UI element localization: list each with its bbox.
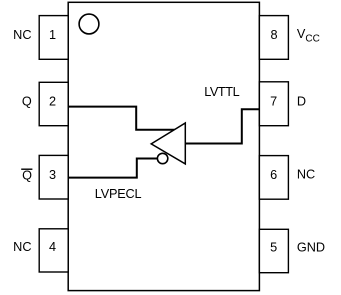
svg-text:LVPECL: LVPECL xyxy=(95,187,142,201)
svg-text:5: 5 xyxy=(270,240,277,254)
svg-text:3: 3 xyxy=(49,168,56,182)
svg-text:8: 8 xyxy=(270,28,277,42)
wire Qbar output (pin 3 to bubble) xyxy=(68,159,157,178)
pin 6 box xyxy=(259,156,288,200)
pin 4 box xyxy=(39,229,68,272)
svg-text:GND: GND xyxy=(297,240,325,254)
pin 1 box xyxy=(39,16,68,60)
svg-text:D: D xyxy=(297,94,306,108)
svg-text:Q: Q xyxy=(22,94,32,108)
svg-text:NC: NC xyxy=(13,240,31,254)
IC body U1 xyxy=(68,2,259,290)
buffer U1 triangle xyxy=(151,123,185,164)
pin 2 box xyxy=(39,82,68,125)
inverting output bubble xyxy=(157,153,167,163)
svg-text:Q: Q xyxy=(22,169,32,183)
svg-text:6: 6 xyxy=(270,168,277,182)
pin 3 label Qbar overline xyxy=(21,168,32,170)
wire Q output (pin 2 to buffer) xyxy=(68,107,174,130)
pin 3 box xyxy=(39,155,68,199)
svg-text:NC: NC xyxy=(297,168,315,182)
svg-text:1: 1 xyxy=(49,28,56,42)
pin 5 box xyxy=(259,229,288,272)
svg-text:4: 4 xyxy=(49,240,56,254)
pin 7 box xyxy=(259,82,288,126)
pin 8 box xyxy=(259,16,288,60)
svg-text:2: 2 xyxy=(49,95,56,109)
wire D input (pin 7 to buffer) xyxy=(185,109,259,143)
svg-text:7: 7 xyxy=(270,95,277,109)
pin-1 indicator xyxy=(79,14,99,34)
svg-text:LVTTL: LVTTL xyxy=(204,85,239,99)
svg-text:NC: NC xyxy=(13,28,31,42)
